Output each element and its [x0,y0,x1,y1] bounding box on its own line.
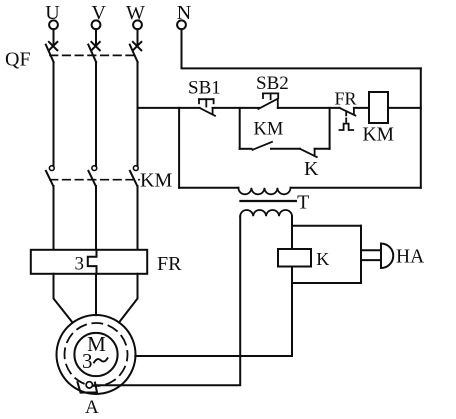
contactor KM main pole 3 [130,166,138,186]
terminal W [133,20,142,29]
wire branch to KM aux [240,148,252,150]
contact K (NC style) [300,149,317,157]
wire W phase QF to KM [137,62,139,166]
wire K loop right [360,226,362,283]
svg-text:QF: QF [5,49,31,71]
pushbutton SB2 (NO) [258,93,278,109]
svg-text:3: 3 [82,349,93,373]
wire left loop vertical [178,108,180,188]
terminal V [92,20,101,29]
svg-text:T: T [297,192,309,214]
circuit breaker QF pole 2 [88,42,100,62]
horn HA symbol [381,244,393,269]
svg-text:SB2: SB2 [256,73,289,94]
contact KM auxiliary (NO) [253,142,273,150]
contactor KM main pole 1 [46,166,54,186]
wire FR contact to KM coil [354,107,369,109]
motor terminal A circle [86,382,92,388]
svg-text:KM: KM [254,120,284,140]
wire SB1 to SB2 [213,107,259,109]
wire K loop top [292,225,361,227]
wire riser up to rung [329,108,331,149]
terminal U [49,20,58,29]
svg-text:K: K [316,249,329,269]
wire V phase QF to KM [95,62,97,166]
svg-text:FR: FR [157,253,182,275]
wire V terminal to QF [95,29,97,44]
wire right bus [420,68,422,187]
thermal relay FR heater box [31,250,147,274]
wire SB2 to FR contact [278,107,340,109]
wire secondary right down to motor line [291,216,293,356]
motor M dashed circle [65,323,128,386]
svg-text:FR: FR [335,89,357,109]
relay coil K [278,249,311,267]
QF linkage dashed line [50,54,138,56]
svg-text:A: A [85,397,99,418]
circuit breaker QF pole 1 [46,42,58,62]
motor M inner circle [74,333,117,376]
wire V phase KM to FR [95,186,97,250]
wire W terminal to QF [137,29,139,44]
thermal relay FR contact (NC) [340,108,356,130]
wire primary loop bottom left segment [179,187,238,189]
svg-text:SB1: SB1 [188,78,221,99]
svg-text:K: K [304,158,319,180]
wire N down and right to bus [182,29,421,68]
wire K contact to riser [315,148,330,150]
motor brush box [78,382,98,392]
wire KM aux to K contact [271,148,300,150]
wire secondary left down and to motor terminal A [95,216,241,385]
wire control rung from W to SB1 [138,107,200,109]
motor M outer circle [57,315,136,394]
svg-text:HA: HA [396,247,424,268]
wire motor right connection [135,355,292,357]
terminal N [177,20,186,29]
wire HA stub upper [361,249,381,251]
pushbutton SB1 (NC) [199,99,215,116]
contactor KM main pole 2 [88,166,96,186]
transformer T secondary winding [240,210,292,216]
circuit breaker QF pole 3 [130,42,142,62]
wire primary to bus [291,187,421,189]
wire V phase FR to motor [95,274,97,315]
motor tilde mark [94,358,108,362]
wire U phase FR to motor [54,274,73,323]
wire U phase QF to KM [53,62,55,166]
wire W phase FR to motor [119,274,138,323]
wire U phase KM to FR [53,186,55,250]
FR heater element symbol [88,250,97,274]
wire W phase KM to FR [137,186,139,250]
svg-text:3: 3 [75,254,85,275]
wire U terminal to QF [53,29,55,44]
transformer T core bar [241,200,296,202]
transformer T primary winding [238,188,290,195]
wire K loop bottom [292,282,361,284]
coil KM [369,92,388,123]
svg-text:KM: KM [363,125,394,146]
KM linkage dashed line [50,179,139,181]
wire branch down from rung [239,108,241,149]
wire HA stub lower [361,259,381,261]
wire KM coil to bus [388,107,421,109]
svg-text:KM: KM [140,170,172,192]
